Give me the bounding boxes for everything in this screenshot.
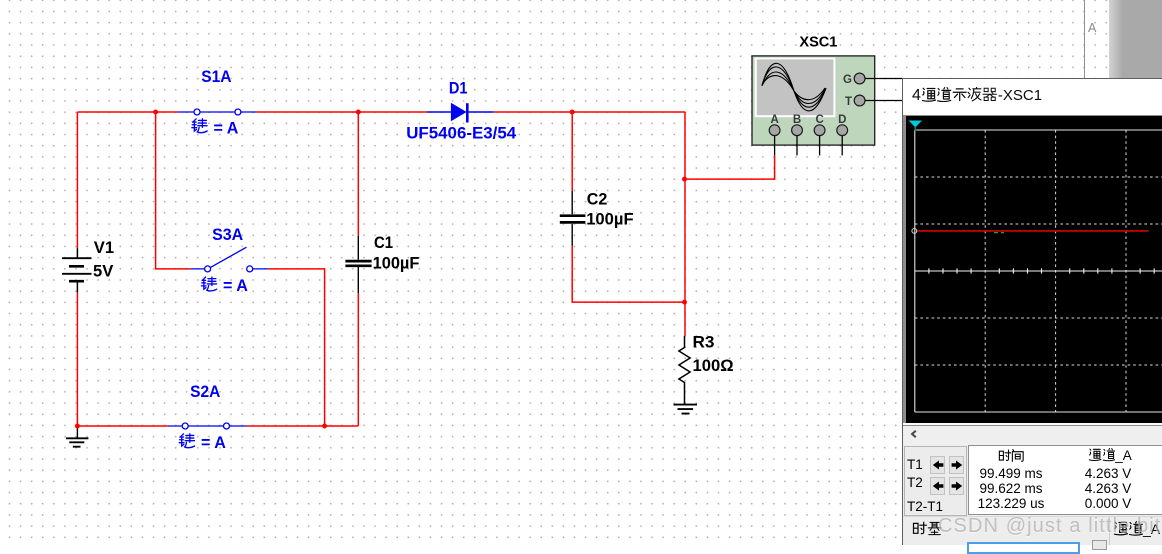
wire top horizontal middle (257, 111, 427, 113)
battery V1 (62, 248, 92, 292)
small gray box bottom (1092, 540, 1107, 550)
junction at C2 top (570, 110, 575, 115)
T1 arrow buttons (930, 456, 945, 475)
oscilloscope icon sine waves (762, 63, 826, 111)
svg-text:100µF: 100µF (586, 209, 633, 228)
wire left vertical from top wire to battery and battery to bottom wire (76, 112, 78, 426)
label T2-T1 (907, 499, 943, 514)
scope x axis with ticks (914, 268, 1162, 273)
svg-text:UF5406-E3/54: UF5406-E3/54 (406, 124, 517, 143)
junction at S3A branch bottom (322, 424, 327, 429)
header channel A (1058, 448, 1162, 463)
scrollbar left arrow (910, 430, 918, 438)
svg-text:V1: V1 (94, 238, 114, 257)
svg-text:C2: C2 (587, 189, 608, 208)
label timebase (912, 521, 942, 539)
wire bottom horizontal (77, 425, 358, 427)
scope display area (906, 116, 1162, 423)
label key=A for S2A (179, 433, 226, 452)
svg-text:= A: = A (201, 433, 226, 452)
svg-text:C1: C1 (374, 233, 393, 252)
trace channel A (911, 229, 1148, 234)
svg-text:T: T (845, 96, 852, 108)
dialog title text (912, 87, 1042, 105)
svg-text:B: B (793, 114, 801, 126)
switch S1A (closed) (178, 109, 257, 115)
scope plot border (914, 130, 1162, 412)
oscilloscope dialog panel (902, 78, 1162, 545)
label T2 (907, 475, 923, 490)
wire top horizontal left (77, 111, 177, 113)
svg-text:G: G (843, 74, 852, 86)
svg-text:5V: 5V (93, 262, 114, 281)
wire to oscilloscope input A (685, 155, 775, 179)
terminal T (845, 95, 865, 108)
switch S3A (open) (191, 247, 269, 272)
dialog title bar (903, 79, 1162, 116)
scope widget sunken edge (903, 115, 1162, 425)
terminal G (843, 73, 865, 86)
oscilloscope XSC1 icon body (752, 56, 875, 145)
terminals A B C D (769, 114, 847, 136)
wire right vertical (684, 112, 686, 336)
cursor readout left box (904, 446, 967, 517)
svg-text:100µF: 100µF (373, 254, 420, 273)
watermark (938, 515, 1162, 538)
switch S2A (closed) (168, 423, 247, 429)
bottom vertical separator (1109, 517, 1110, 545)
label channel A bottom (1113, 521, 1160, 537)
svg-text:100Ω: 100Ω (693, 356, 734, 375)
label key=A for S3A (201, 276, 248, 295)
svg-text:A: A (771, 114, 779, 126)
label T1 (907, 457, 923, 472)
letter A marker top right (1088, 21, 1096, 35)
capacitor C1 (345, 236, 371, 293)
scope dashed gridlines (914, 130, 1162, 412)
junction at S3A branch top (153, 110, 158, 115)
junction at scope branch (682, 177, 687, 182)
svg-text:D1: D1 (449, 79, 468, 98)
diode D1 (427, 103, 494, 123)
resistor R3 (679, 336, 690, 405)
wire C2 branch and bottom link (572, 112, 684, 302)
T1 cursor marker cyan (908, 121, 921, 131)
capacitor C2 (560, 191, 586, 246)
header time (951, 448, 1071, 466)
junction at ground node (75, 424, 80, 429)
svg-text:C: C (816, 114, 824, 126)
scrollbar row (903, 423, 1162, 424)
svg-text:= A: = A (214, 118, 239, 137)
scope graphics svg (906, 116, 1162, 421)
svg-text:R3: R3 (693, 333, 715, 352)
junction at C2 bottom (682, 300, 687, 305)
junction at C1 top (356, 110, 361, 115)
row T2-T1 values (951, 496, 1071, 511)
svg-text:S1A: S1A (201, 67, 231, 86)
row T2 values (951, 481, 1071, 496)
wire top horizontal right (494, 111, 685, 113)
label key=A for S1A (192, 118, 239, 137)
readout data box (968, 445, 1162, 515)
row T1 values (951, 466, 1071, 481)
svg-text:S3A: S3A (212, 225, 243, 244)
svg-text:= A: = A (223, 276, 248, 295)
bottom separator (903, 516, 1162, 517)
T2 arrow buttons (930, 477, 945, 496)
gray block top right (1109, 0, 1162, 78)
terminal leads (775, 79, 902, 156)
wire S3A branch (156, 112, 325, 426)
wire C1 branch vertical (357, 112, 359, 426)
focused input bottom (967, 542, 1080, 554)
svg-text:XSC1: XSC1 (799, 34, 837, 50)
ground (battery) (66, 426, 88, 447)
canvas right edge separator line (1084, 0, 1085, 78)
ground (R3) (674, 405, 698, 414)
svg-text:S2A: S2A (190, 382, 220, 401)
svg-text:D: D (838, 114, 846, 126)
